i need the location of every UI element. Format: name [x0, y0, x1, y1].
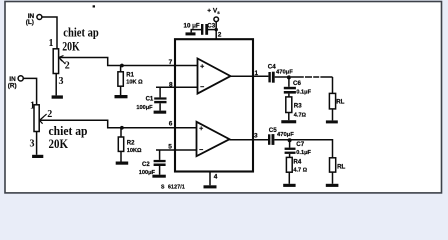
wire C4 to node: [275, 76, 289, 78]
label chiet ap 20K (P2): [49, 123, 88, 151]
ground R1: [115, 95, 128, 98]
wire pin 5: [156, 149, 197, 151]
wire IN(R) to pot P2: [23, 78, 36, 104]
wire node to RL1 (dashed): [291, 76, 333, 78]
ground C3: [186, 32, 196, 35]
svg-text:C6: C6: [293, 80, 301, 87]
input terminal IN (R): [18, 76, 23, 81]
label C4 value: [268, 63, 293, 75]
wire P1 pin3 to ground: [55, 74, 57, 96]
potentiometer P1: [53, 49, 65, 74]
svg-text:7: 7: [169, 59, 173, 66]
capacitor C5: [268, 134, 274, 145]
label IN (L): [26, 13, 35, 26]
svg-text:1: 1: [255, 70, 259, 77]
svg-text:C3: C3: [207, 23, 215, 30]
wire P2 pin3 to ground: [36, 132, 38, 155]
supply terminal +Vs: [214, 17, 219, 22]
wire IN(L) to pot P1: [42, 17, 57, 49]
svg-text:20K: 20K: [49, 136, 69, 151]
wire pin 4 to ground: [209, 172, 211, 186]
svg-text:C1: C1: [146, 97, 154, 103]
capacitor C2: [154, 150, 166, 175]
resistor R3: [286, 97, 292, 120]
label C5 value: [269, 127, 294, 138]
resistor RL2: [330, 158, 336, 184]
svg-text:R2: R2: [127, 140, 135, 146]
label R4 value: [293, 159, 307, 174]
node junction C6: [287, 75, 291, 79]
wire P1 wiper to node: [59, 58, 198, 66]
svg-text:100μF: 100μF: [139, 170, 156, 176]
label C6 value: [293, 80, 312, 96]
svg-text:10 μF: 10 μF: [184, 23, 200, 30]
ground R3: [281, 120, 296, 123]
ground P2: [32, 155, 43, 158]
svg-text:10K Ω: 10K Ω: [126, 80, 143, 86]
svg-text:C4: C4: [268, 63, 276, 70]
ground R2: [116, 162, 129, 165]
op-amp A2: [197, 122, 230, 156]
capacitor C6: [284, 77, 296, 97]
label R3 value: [294, 102, 307, 118]
wire output pin 1: [231, 75, 269, 77]
wire pin 8: [156, 86, 198, 88]
wire P2 wiper to node: [39, 120, 196, 128]
node junction C7: [288, 138, 292, 142]
svg-text:(R): (R): [8, 83, 17, 90]
svg-text:C5: C5: [269, 127, 277, 134]
resistor RL1: [329, 93, 335, 120]
ground RL2: [326, 184, 339, 187]
label R2 value: [127, 140, 142, 154]
svg-text:2: 2: [65, 60, 70, 71]
schematic page background frame: [5, 2, 442, 193]
svg-text:5: 5: [168, 144, 172, 151]
node junction at R2: [120, 126, 124, 130]
svg-text:100μF: 100μF: [136, 105, 153, 111]
svg-text:2: 2: [47, 109, 52, 120]
svg-text:R1: R1: [126, 73, 134, 79]
svg-text:10KΩ: 10KΩ: [127, 148, 142, 154]
label 10uF C3: [184, 23, 216, 30]
svg-text:RL: RL: [336, 98, 344, 105]
svg-text:R3: R3: [294, 102, 302, 109]
svg-text:3: 3: [30, 139, 35, 150]
label R1 value: [126, 73, 143, 86]
svg-text:470μF: 470μF: [277, 132, 294, 138]
svg-text:(L): (L): [26, 19, 34, 26]
svg-text:3: 3: [254, 132, 258, 139]
capacitor C4: [268, 72, 274, 83]
potentiometer P2: [34, 105, 47, 132]
ground RL1: [326, 120, 338, 123]
input terminal IN (L): [37, 15, 42, 20]
wire output pin 3: [230, 139, 269, 141]
svg-text:20K: 20K: [62, 39, 80, 54]
ground C1: [154, 111, 167, 114]
svg-text:2: 2: [218, 32, 222, 39]
stray ink speck: [93, 5, 95, 7]
svg-text:8: 8: [169, 82, 173, 89]
svg-text:C7: C7: [296, 141, 304, 148]
svg-text:0.1μF: 0.1μF: [296, 90, 311, 96]
ground R4: [283, 184, 295, 187]
capacitor C1: [154, 87, 166, 110]
op-amp A1: [198, 59, 231, 94]
wire +Vs to pin 2: [215, 22, 217, 40]
svg-text:R4: R4: [293, 159, 301, 166]
label chiet ap 20K (P1): [62, 25, 99, 54]
svg-text:470μF: 470μF: [276, 69, 293, 75]
label C1 value: [136, 97, 154, 111]
label C7 value: [296, 141, 311, 156]
svg-text:RL: RL: [337, 164, 345, 171]
label IN (R): [8, 76, 17, 90]
resistor R4: [286, 157, 292, 183]
svg-text:4: 4: [214, 173, 218, 180]
wire C5 to node and RL2: [274, 140, 332, 158]
capacitor C3: [191, 24, 216, 35]
node junction at R1: [120, 64, 124, 68]
resistor R1: [118, 66, 123, 96]
resistor R2: [118, 128, 123, 162]
svg-text:chiet ap: chiet ap: [63, 25, 99, 40]
svg-text:1: 1: [30, 101, 35, 112]
capacitor C7: [285, 140, 296, 157]
node junction at C3: [215, 28, 218, 31]
svg-text:C2: C2: [142, 162, 150, 168]
ground pin 4: [204, 185, 217, 188]
ground P1: [52, 95, 63, 98]
svg-text:S 6127/1: S 6127/1: [161, 184, 185, 190]
svg-text:4.7 Ω: 4.7 Ω: [293, 167, 307, 173]
IC box U1: [175, 39, 253, 171]
svg-text:4.7Ω: 4.7Ω: [294, 113, 307, 119]
svg-text:0.1μF: 0.1μF: [296, 150, 311, 156]
label C2 value: [139, 162, 156, 176]
svg-text:3: 3: [59, 76, 64, 87]
svg-text:6: 6: [169, 121, 173, 128]
svg-text:1: 1: [49, 38, 54, 49]
ground C2: [152, 175, 165, 178]
